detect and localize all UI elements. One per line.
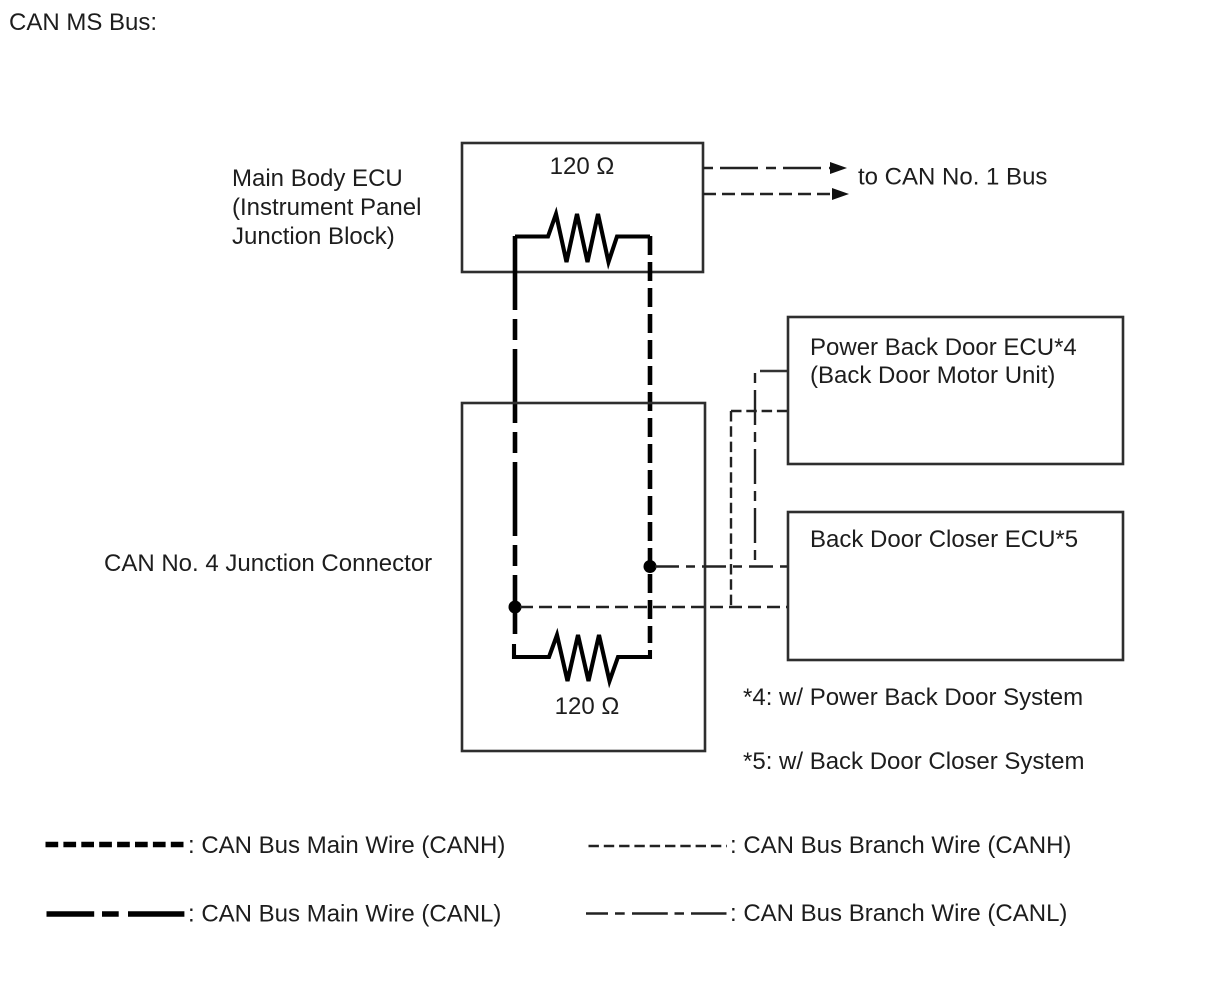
legend swatch: CAN Bus Main Wire CANH (thick dashed) [46, 842, 185, 848]
svg-text:Back Door Closer ECU*5: Back Door Closer ECU*5 [810, 526, 1078, 553]
svg-text:Junction Block): Junction Block) [232, 223, 395, 250]
wire: CAN bus main wire CANH (thick dashed vertical, right) [648, 236, 653, 643]
wire: CANL branch wire to ECUs (thin dash-dot) [655, 371, 788, 567]
resistor: 120 ohm terminating resistor inside Main Body ECU [515, 214, 650, 262]
svg-text:to CAN No. 1 Bus: to CAN No. 1 Bus [858, 164, 1047, 191]
node: junction dot on CANH line [644, 560, 657, 573]
svg-text:120 Ω: 120 Ω [555, 693, 620, 720]
component box: Back Door Closer ECU [788, 512, 1123, 660]
wire: CANH arrow line to CAN No. 1 Bus (thin dashed) [703, 188, 849, 200]
svg-text:Main Body ECU: Main Body ECU [232, 165, 403, 192]
legend swatch: CAN Bus Branch Wire CANL (thin dash-dot) [586, 912, 727, 914]
label: Power Back Door ECU*4 (Back Door Motor Unit) [810, 334, 1077, 389]
svg-text:: CAN Bus Main Wire (CANH): : CAN Bus Main Wire (CANH) [188, 832, 505, 859]
svg-text:(Back Door Motor Unit): (Back Door Motor Unit) [810, 362, 1055, 389]
svg-text:CAN MS Bus:: CAN MS Bus: [9, 9, 157, 36]
svg-text:: CAN Bus Main Wire (CANL): : CAN Bus Main Wire (CANL) [188, 901, 501, 928]
resistor: 120 ohm terminating resistor inside junction connector [514, 635, 650, 681]
svg-text:*4: w/ Power Back Door System: *4: w/ Power Back Door System [743, 684, 1083, 711]
svg-text:*5: w/ Back Door Closer System: *5: w/ Back Door Closer System [743, 748, 1084, 775]
legend swatch: CAN Bus Main Wire CANL (thick dash-dot) [47, 911, 185, 917]
svg-text:120 Ω: 120 Ω [550, 153, 615, 180]
node: junction dot on CANL line [509, 601, 522, 614]
svg-text:: CAN Bus Branch Wire (CANH): : CAN Bus Branch Wire (CANH) [730, 832, 1071, 859]
wire: CANH branch wire to ECUs (thin dashed) [520, 411, 788, 607]
label: Main Body ECU (Instrument Panel Junction Block) [232, 165, 421, 250]
legend swatch: CAN Bus Branch Wire CANH (thin dashed) [589, 845, 728, 847]
component box: Main Body ECU terminator [462, 143, 703, 272]
svg-text:(Instrument Panel: (Instrument Panel [232, 194, 421, 221]
svg-text:Power Back Door ECU*4: Power Back Door ECU*4 [810, 334, 1077, 361]
svg-text:: CAN Bus Branch Wire (CANL): : CAN Bus Branch Wire (CANL) [730, 900, 1067, 927]
svg-text:CAN No. 4 Junction Connector: CAN No. 4 Junction Connector [104, 550, 432, 577]
wire: CANL arrow line to CAN No. 1 Bus (thin dash-dot) [703, 162, 847, 174]
wire: CAN bus main wire CANL (thick dash-dot vertical, left) [513, 236, 518, 634]
component box: CAN No. 4 Junction Connector [462, 403, 705, 751]
component box: Power Back Door ECU [788, 317, 1123, 464]
